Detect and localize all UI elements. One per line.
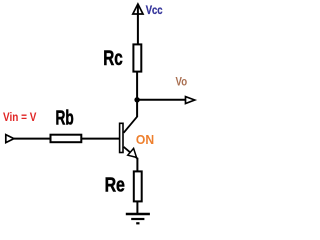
- wire Vcc arrow to Rc: [137, 4, 139, 45]
- ground: [126, 214, 150, 223]
- wire Rb to base: [81, 138, 120, 140]
- wire input to Rb: [14, 138, 51, 140]
- transistor Q1 emitter lead: [124, 147, 138, 159]
- transistor Q1 collector lead: [124, 117, 138, 133]
- svg-text:Re: Re: [105, 174, 125, 197]
- wire Re to ground: [136, 201, 138, 213]
- wire emitter to Re: [136, 158, 138, 172]
- resistor Rc: [133, 44, 141, 71]
- resistor Rb: [51, 135, 82, 143]
- transistor Q1 emitter arrow: [128, 148, 137, 157]
- svg-text:ON: ON: [136, 133, 154, 147]
- wire junction to output arrow: [137, 99, 186, 101]
- svg-text:Rc: Rc: [103, 47, 123, 70]
- svg-text:Vin = V: Vin = V: [3, 110, 36, 124]
- transistor Q1 base bar: [120, 123, 123, 152]
- wire Rc to collector corner: [136, 72, 138, 117]
- node output junction: [134, 97, 139, 102]
- resistor Re: [134, 171, 142, 201]
- svg-text:Vo: Vo: [176, 75, 188, 89]
- svg-text:Vcc: Vcc: [146, 3, 163, 17]
- input terminal arrow: [6, 135, 14, 143]
- svg-text:Rb: Rb: [56, 107, 74, 130]
- output terminal arrow Vo: [186, 97, 195, 104]
- power Vcc arrow: [133, 4, 143, 14]
